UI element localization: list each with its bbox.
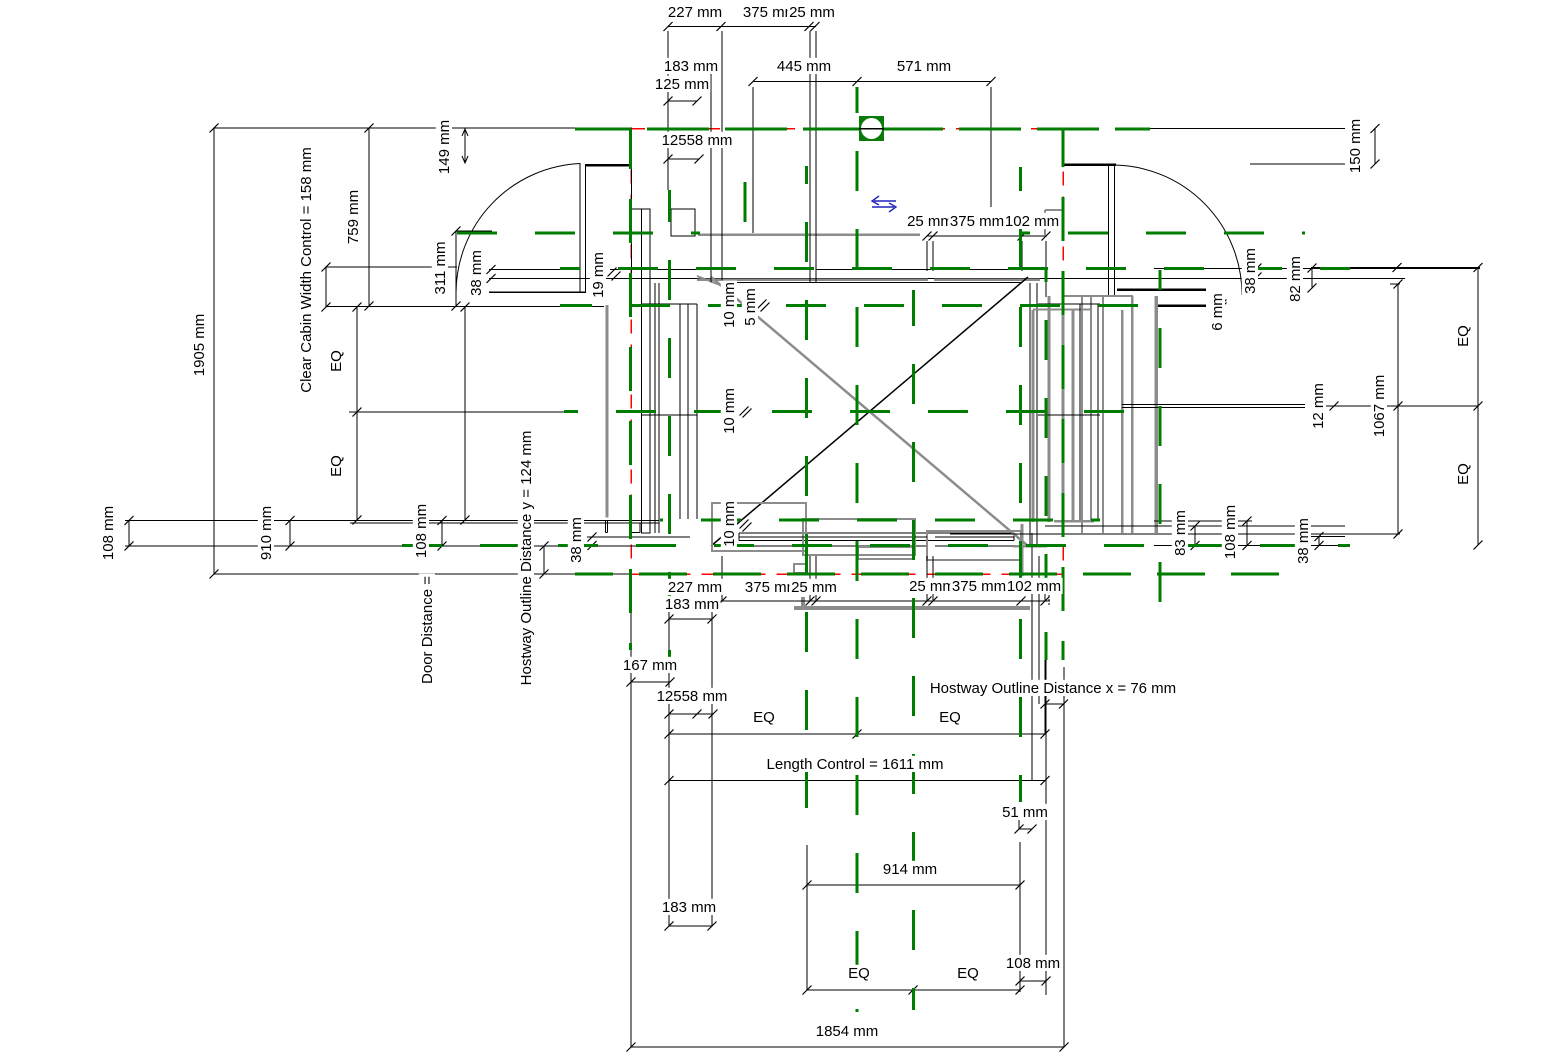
- svg-text:25 mm: 25 mm: [907, 213, 953, 230]
- svg-text:Length Control = 1611 mm: Length Control = 1611 mm: [767, 756, 944, 773]
- svg-text:Clear Cabin Width Control = 1: Clear Cabin Width Control = 158 mm: [298, 147, 315, 393]
- svg-text:1854 mm: 1854 mm: [816, 1023, 879, 1040]
- svg-text:102 mm: 102 mm: [1005, 213, 1059, 230]
- svg-text:149 mm: 149 mm: [436, 120, 453, 174]
- svg-text:571 mm: 571 mm: [897, 58, 951, 75]
- svg-text:183 mm: 183 mm: [662, 899, 716, 916]
- svg-text:150 mm: 150 mm: [1347, 119, 1364, 173]
- svg-text:19 mm: 19 mm: [590, 252, 607, 298]
- svg-text:Hostway Outline Distance y = 1: Hostway Outline Distance y = 124 mm: [518, 431, 535, 686]
- svg-text:227 mm: 227 mm: [668, 4, 722, 21]
- svg-text:375 mm: 375 mm: [952, 578, 1006, 595]
- svg-text:38 mm: 38 mm: [568, 517, 585, 563]
- svg-text:EQ: EQ: [1455, 325, 1472, 347]
- svg-text:6 mm: 6 mm: [1209, 293, 1226, 331]
- svg-text:910 mm: 910 mm: [258, 506, 275, 560]
- svg-text:1905 mm: 1905 mm: [191, 314, 208, 377]
- svg-text:EQ: EQ: [939, 709, 961, 726]
- svg-text:1067 mm: 1067 mm: [1371, 375, 1388, 438]
- svg-text:EQ: EQ: [1455, 463, 1472, 485]
- svg-text:38 mm: 38 mm: [1242, 248, 1259, 294]
- svg-text:EQ: EQ: [848, 965, 870, 982]
- svg-text:12 mm: 12 mm: [1310, 383, 1327, 429]
- svg-text:102 mm: 102 mm: [1007, 578, 1061, 595]
- svg-text:167 mm: 167 mm: [623, 657, 677, 674]
- svg-text:227 mm: 227 mm: [668, 579, 722, 596]
- svg-text:EQ: EQ: [753, 709, 775, 726]
- svg-text:108 mm: 108 mm: [100, 506, 117, 560]
- svg-text:5 mm: 5 mm: [742, 288, 759, 326]
- svg-text:183 mm: 183 mm: [665, 596, 719, 613]
- svg-text:83 mm: 83 mm: [1172, 510, 1189, 556]
- svg-text:82 mm: 82 mm: [1287, 256, 1304, 302]
- svg-text:25 mm: 25 mm: [789, 4, 835, 21]
- svg-text:38 mm: 38 mm: [468, 250, 485, 296]
- svg-text:125 mm: 125 mm: [655, 76, 709, 93]
- svg-text:108 mm: 108 mm: [413, 504, 430, 558]
- svg-text:EQ: EQ: [957, 965, 979, 982]
- svg-text:375 mm: 375 mm: [950, 213, 1004, 230]
- svg-text:183 mm: 183 mm: [664, 58, 718, 75]
- svg-text:25 mm: 25 mm: [909, 578, 955, 595]
- svg-text:445 mm: 445 mm: [777, 58, 831, 75]
- svg-text:10 mm: 10 mm: [721, 501, 738, 547]
- svg-text:38 mm: 38 mm: [1295, 518, 1312, 564]
- svg-text:12558 mm: 12558 mm: [662, 132, 733, 149]
- svg-text:10 mm: 10 mm: [721, 282, 738, 328]
- svg-text:EQ: EQ: [328, 455, 345, 477]
- svg-text:12558 mm: 12558 mm: [657, 688, 728, 705]
- svg-text:759 mm: 759 mm: [345, 190, 362, 244]
- svg-text:108 mm: 108 mm: [1006, 955, 1060, 972]
- svg-text:311 mm: 311 mm: [432, 241, 449, 294]
- svg-text:Door Distance =: Door Distance =: [419, 576, 436, 684]
- svg-text:914 mm: 914 mm: [883, 861, 937, 878]
- svg-text:108 mm: 108 mm: [1222, 505, 1239, 559]
- svg-text:25 mm: 25 mm: [791, 579, 837, 596]
- svg-text:10 mm: 10 mm: [721, 388, 738, 434]
- svg-text:EQ: EQ: [328, 350, 345, 372]
- svg-text:51 mm: 51 mm: [1002, 804, 1048, 821]
- svg-text:Hostway Outline Distance x = 7: Hostway Outline Distance x = 76 mm: [930, 680, 1176, 697]
